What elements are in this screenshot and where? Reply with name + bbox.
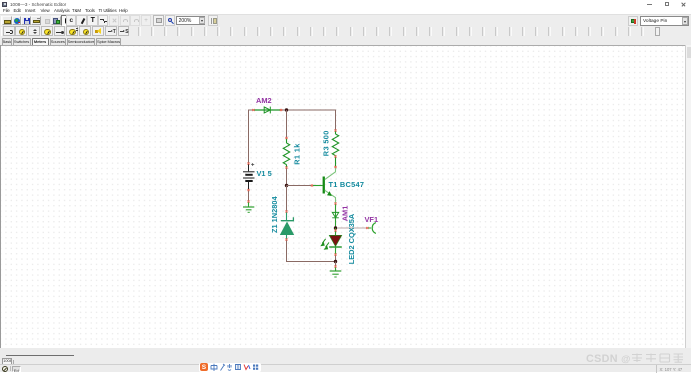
horn/speaker button	[92, 26, 104, 36]
ground (LED)	[330, 267, 342, 278]
svg-text:AM2: AM2	[256, 96, 272, 105]
globe	[12, 16, 22, 26]
transistor T1	[312, 167, 336, 204]
wire top rail right segment	[281, 109, 336, 111]
end cap	[655, 27, 660, 37]
right coords panel	[656, 365, 691, 373]
wire R1 to base node	[286, 168, 288, 186]
Ed box	[12, 366, 21, 372]
pen btn	[76, 15, 87, 26]
LED emission arrows	[320, 239, 329, 250]
toolbar row 1	[0, 14, 691, 26]
label R3 500	[322, 130, 331, 156]
horizontal scrollbar thumb line	[6, 355, 74, 356]
voltage pin combo	[640, 16, 689, 26]
wire-tools btn	[98, 15, 109, 26]
wire top rail left segment	[248, 109, 254, 111]
wattmeter button	[79, 26, 91, 36]
ammeter AM1	[332, 204, 339, 228]
T btn	[87, 15, 98, 26]
svg-text:R1 1k: R1 1k	[292, 143, 301, 165]
wire LED to ground	[335, 262, 337, 267]
to-S button	[118, 26, 130, 36]
cut (disabled)	[42, 16, 52, 26]
zoom combo	[176, 16, 205, 26]
pin marks	[247, 109, 368, 268]
wire bottom left	[287, 240, 335, 262]
right tool icon	[628, 16, 638, 26]
fader btn	[208, 15, 218, 26]
paste	[51, 16, 61, 26]
disabled redo	[130, 15, 140, 26]
voltmeter2 button	[41, 26, 53, 36]
to-T button	[105, 26, 117, 36]
mode icon	[2, 366, 8, 372]
voltmeter button	[15, 26, 27, 36]
c btn	[66, 15, 77, 26]
node junction top (rail / R1)	[285, 108, 288, 111]
label T1 BC547	[329, 180, 365, 189]
zener diode Z1	[280, 212, 294, 240]
resistor R3	[332, 131, 338, 168]
label R1 1k	[292, 143, 301, 165]
CSDN watermark	[586, 352, 685, 365]
title bar	[0, 0, 691, 8]
disabled undo	[120, 15, 130, 26]
ammeter AM2	[254, 107, 282, 114]
battery V1	[243, 163, 255, 190]
disabled delete	[109, 15, 119, 26]
sheet tab	[2, 358, 13, 364]
menu bar	[0, 8, 691, 14]
arrows button	[28, 26, 40, 36]
resistor R1	[283, 138, 289, 168]
wire base	[287, 185, 313, 187]
svg-text:T1 BC547: T1 BC547	[329, 180, 365, 189]
print/folder	[31, 16, 41, 26]
label VF1	[365, 215, 379, 224]
node LED bottom junction	[334, 260, 337, 263]
ground (battery)	[243, 202, 254, 212]
status bar	[0, 364, 691, 373]
wire top-left vertical (battery to top rail)	[248, 110, 250, 164]
multimeter button	[66, 26, 78, 36]
svg-text:R3 500: R3 500	[322, 130, 331, 156]
wire R1 drop	[286, 110, 288, 138]
wire battery to ground	[248, 190, 250, 202]
open	[2, 16, 12, 26]
svg-text:V1 5: V1 5	[257, 169, 272, 178]
svg-text:LED2 CQX35A: LED2 CQX35A	[347, 213, 356, 264]
label AM1	[340, 206, 349, 222]
wire R3 drop	[335, 110, 337, 131]
wire to voltage pin	[337, 227, 367, 229]
node LED top junction	[334, 226, 337, 229]
component tabs	[0, 37, 691, 45]
svg-text:VF1: VF1	[365, 215, 379, 224]
wire Z1 drop	[286, 186, 288, 212]
node base junction	[285, 184, 288, 187]
probe button	[3, 26, 15, 36]
cursor btn (pressed)	[61, 15, 72, 26]
zoom btn	[165, 15, 175, 26]
Sogou IME bar	[199, 363, 261, 373]
label LED2 CQX35A	[347, 213, 356, 264]
label V1 5	[257, 169, 272, 178]
toolbar row 2	[0, 26, 691, 38]
label Z1 1N2804	[270, 196, 279, 233]
LED LED2	[329, 228, 342, 262]
grid btn	[153, 15, 164, 26]
voltage pin VF1	[367, 223, 376, 234]
ammeter probe button	[54, 26, 66, 36]
disabled plus	[141, 15, 151, 26]
label AM2	[256, 96, 272, 105]
svg-text:Z1 1N2804: Z1 1N2804	[270, 196, 279, 233]
save	[21, 16, 31, 26]
bottom area	[0, 348, 691, 372]
